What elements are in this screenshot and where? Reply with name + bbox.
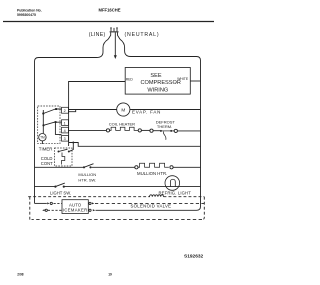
connector icemaker right bottom: [89, 209, 91, 211]
svg-text:→: →: [173, 79, 177, 84]
connector icemaker right top: [89, 202, 94, 204]
header rule: [3, 21, 214, 23]
diagram number S192632: [184, 253, 204, 259]
model number text: [99, 8, 121, 13]
svg-text:SEE: SEE: [150, 73, 161, 79]
wire label RED: [126, 78, 134, 82]
wire light row: [35, 186, 56, 188]
wire white: compressor to neutral: [190, 80, 200, 82]
svg-text:M: M: [121, 107, 125, 112]
label TIMER: [39, 146, 53, 151]
svg-text:2: 2: [64, 109, 66, 113]
svg-text:S192632: S192632: [184, 253, 204, 259]
mullion heater switch: [83, 164, 94, 169]
wire light to neutral: [64, 186, 201, 188]
icemaker dashed return right: [202, 197, 204, 220]
defrost coil heater element: [106, 127, 149, 132]
wire red: compressor to left vertical: [69, 82, 126, 147]
defrost thermostat: [150, 129, 201, 140]
svg-text:4: 4: [64, 129, 66, 133]
connector return left side: [42, 209, 62, 211]
svg-text:3: 3: [64, 137, 66, 141]
auto icemaker box: [62, 200, 88, 214]
wire mullion row: [35, 166, 85, 168]
svg-text:(NEUTRAL): (NEUTRAL): [125, 32, 160, 38]
svg-text:COIL HEATER: COIL HEATER: [109, 122, 135, 127]
footer page 19: [108, 272, 112, 276]
svg-text:(LINE): (LINE): [89, 32, 106, 38]
label MULLION HTR.: [137, 171, 167, 176]
svg-text:5995300475: 5995300475: [17, 13, 36, 17]
refrigerator lamp: [165, 176, 180, 191]
svg-text:HTR. SW.: HTR. SW.: [78, 178, 96, 183]
svg-text:TIMER: TIMER: [39, 146, 53, 151]
svg-text:Publication No.: Publication No.: [17, 9, 42, 13]
ground wire with arrow: [114, 32, 117, 59]
timer motor TM: [39, 134, 46, 145]
label EVAP. FAN: [132, 109, 161, 114]
wire line to icemaker: [35, 202, 47, 204]
wire timer terminal 2 to fan row: [68, 110, 75, 112]
publication number text: [17, 9, 42, 18]
label MULLION HTR. SW.: [78, 172, 96, 182]
light switch: [54, 183, 65, 188]
cold control contacts: [58, 149, 70, 164]
label DEFROST THERM.: [156, 119, 176, 128]
wire timer terminal 3 to neutral: [68, 143, 200, 147]
motor: evap fan: [117, 103, 130, 116]
solenoid valve coil: [150, 195, 164, 197]
wire LINE: plug down-left, across, down left side: [35, 39, 109, 203]
svg-text:19: 19: [108, 272, 112, 276]
icemaker dashed return left: [29, 197, 31, 220]
svg-text:MULLION: MULLION: [78, 172, 96, 177]
label COLD CONT: [41, 156, 53, 166]
connector plug left: [47, 202, 52, 204]
svg-text:2/98: 2/98: [17, 272, 23, 276]
svg-text:THERM.: THERM.: [157, 124, 172, 129]
timer terminal strip: [62, 107, 69, 141]
label (LINE): [89, 32, 106, 38]
connector arrow on return: [93, 209, 95, 211]
dashed wire icemaker to solenoid row: [95, 202, 204, 204]
defrost timer dashed box: [38, 106, 60, 144]
wire label WHITE: [177, 77, 189, 81]
svg-text:TM: TM: [40, 136, 45, 140]
svg-text:MFF16CHE: MFF16CHE: [99, 8, 121, 13]
svg-text:MULLION HTR.: MULLION HTR.: [137, 171, 167, 176]
footer date 2/98: [17, 272, 23, 276]
svg-text:RED: RED: [126, 78, 134, 82]
junction node: [72, 142, 74, 144]
wire NEUTRAL: plug down-right, across, down right side, bottom return: [96, 39, 201, 210]
compressor box: SEE COMPRESSOR WIRING: [125, 68, 190, 95]
wire to cold control: [70, 143, 74, 152]
svg-text:REFRIG. LIGHT: REFRIG. LIGHT: [159, 191, 192, 196]
wire defrost heater row: [68, 129, 106, 131]
svg-text:LIGHT SW.: LIGHT SW.: [50, 190, 71, 195]
label SOLENOID VALVE: [131, 204, 172, 209]
cold control dashed box: [55, 148, 73, 166]
label COIL HEATER: [109, 122, 135, 127]
label REFRIG. LIGHT: [159, 191, 192, 196]
label LIGHT SW.: [50, 190, 71, 195]
svg-text:WHITE: WHITE: [177, 77, 189, 81]
svg-text:SOLENOID VALVE: SOLENOID VALVE: [131, 204, 172, 209]
mullion heater element: [135, 163, 201, 169]
power plug P1: [108, 28, 120, 40]
svg-text:WIRING: WIRING: [147, 87, 168, 93]
svg-text:CONT: CONT: [41, 161, 53, 166]
timer internal contacts: [42, 108, 61, 134]
dashed wire to icemaker box: [54, 202, 63, 204]
icemaker dashed return bottom: [32, 219, 203, 221]
label (NEUTRAL): [125, 32, 160, 38]
svg-text:EVAP. FAN: EVAP. FAN: [132, 109, 161, 114]
svg-text:1: 1: [64, 121, 66, 125]
wire evap fan row: [69, 109, 201, 111]
wire to mullion heater: [92, 166, 135, 168]
icemaker feed dashed wire with solenoid: [28, 196, 204, 198]
svg-text:ICEMAKER: ICEMAKER: [63, 207, 88, 212]
